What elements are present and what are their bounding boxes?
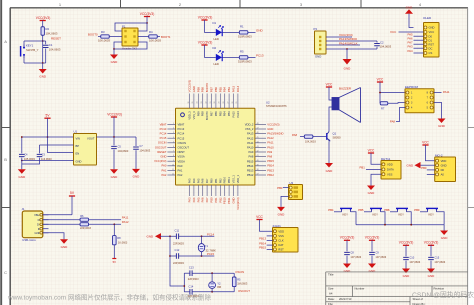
pin GND MQ-2 bbox=[436, 164, 439, 167]
wire emitter to ground bbox=[328, 141, 330, 163]
pin D0 MQ-2 bbox=[436, 168, 439, 171]
svg-text:47: 47 bbox=[257, 128, 259, 130]
svg-text:GND: GND bbox=[441, 236, 449, 240]
svg-text:PB4: PB4 bbox=[223, 111, 227, 116]
svg-text:CS: CS bbox=[429, 51, 433, 55]
LED D1 bbox=[216, 29, 222, 36]
svg-text:5V: 5V bbox=[113, 260, 116, 264]
resistor R5b bbox=[239, 56, 248, 59]
wire pin leads P3 bbox=[326, 36, 330, 38]
capacitor C5 bbox=[113, 137, 115, 145]
svg-text:VDD: VDD bbox=[278, 229, 284, 233]
wire OSCOUT row bbox=[192, 291, 234, 293]
svg-text:NRST: NRST bbox=[178, 150, 186, 154]
svg-text:VCC: VCC bbox=[390, 30, 397, 34]
svg-text:11: 11 bbox=[172, 169, 174, 171]
svg-text:VDD_2: VDD_2 bbox=[245, 123, 254, 127]
resistor R7 pullup bbox=[379, 93, 381, 104]
ground GND C5 bbox=[110, 169, 118, 174]
svg-text:R6: R6 bbox=[80, 214, 84, 218]
svg-text:VCC(3V3): VCC(3V3) bbox=[399, 241, 414, 245]
pin 30 PB6 MCU bbox=[215, 94, 217, 109]
svg-text:105,0603: 105,0603 bbox=[24, 157, 35, 161]
svg-text:PA7: PA7 bbox=[205, 178, 209, 183]
svg-text:EN: EN bbox=[76, 152, 80, 156]
svg-text:PA9: PA9 bbox=[249, 150, 254, 154]
svg-text:A: A bbox=[4, 39, 7, 44]
svg-text:PA4: PA4 bbox=[192, 178, 196, 183]
pin DAT 24L01 bbox=[273, 244, 276, 247]
svg-text:PA6: PA6 bbox=[201, 178, 205, 183]
svg-text:1: 1 bbox=[173, 123, 174, 125]
svg-text:VCC(3V3): VCC(3V3) bbox=[107, 112, 122, 116]
svg-text:Date:: Date: bbox=[328, 297, 335, 301]
svg-text:GND: GND bbox=[438, 124, 446, 128]
node PA11 bbox=[89, 219, 121, 221]
svg-text:10K,0603: 10K,0603 bbox=[46, 32, 58, 36]
pin VDD 24L01 bbox=[273, 230, 276, 233]
ground GND MQ2 (left arrow) bbox=[415, 162, 421, 168]
pin 9 VDDA MCU bbox=[167, 160, 175, 162]
svg-text:40: 40 bbox=[257, 160, 259, 162]
svg-text:PB12: PB12 bbox=[247, 173, 254, 177]
svg-text:PA12: PA12 bbox=[122, 220, 129, 224]
svg-text:LED: LED bbox=[214, 37, 219, 41]
svg-text:26: 26 bbox=[232, 102, 234, 104]
svg-text:107,0603: 107,0603 bbox=[375, 255, 386, 259]
svg-text:PA7: PA7 bbox=[205, 197, 209, 202]
svg-text:GND: GND bbox=[278, 213, 286, 217]
svg-text:VBAT: VBAT bbox=[160, 122, 167, 126]
svg-text:VSS: VSS bbox=[278, 234, 284, 238]
svg-text:GND: GND bbox=[368, 191, 376, 195]
svg-text:PC14: PC14 bbox=[207, 232, 214, 236]
svg-text:R5: R5 bbox=[237, 277, 241, 281]
svg-text:VCC(3V3): VCC(3V3) bbox=[365, 236, 380, 240]
resistor R5 bbox=[233, 273, 235, 276]
capacitor C13 bbox=[184, 272, 190, 274]
pin 35 VSS_3 MCU bbox=[193, 94, 195, 109]
svg-text:10K,0603: 10K,0603 bbox=[149, 39, 161, 43]
svg-text:PA11: PA11 bbox=[267, 141, 274, 145]
node PB1 DHT11 bbox=[366, 168, 381, 170]
svg-text:GND: GND bbox=[428, 274, 436, 278]
svg-text:D1: D1 bbox=[213, 21, 217, 25]
svg-text:PA11: PA11 bbox=[247, 141, 254, 145]
svg-text:RST: RST bbox=[429, 42, 435, 46]
svg-text:GND: GND bbox=[315, 55, 321, 59]
node PA12 bbox=[89, 223, 121, 225]
svg-text:PB11: PB11 bbox=[227, 197, 231, 204]
pin 2 EEPROM bbox=[406, 96, 409, 99]
svg-text:107,0603: 107,0603 bbox=[409, 260, 420, 264]
svg-text:PA6: PA6 bbox=[201, 197, 205, 202]
pin 3 EEPROM bbox=[406, 101, 409, 104]
wire right pin2 to VCC bbox=[138, 23, 147, 31]
svg-text:104,0603: 104,0603 bbox=[139, 149, 150, 153]
svg-text:VCC(3V3): VCC(3V3) bbox=[36, 16, 51, 20]
resistor R1 bbox=[239, 31, 248, 34]
pin 13 PA3 MCU bbox=[189, 185, 191, 196]
pin 8 EEPROM bbox=[430, 91, 433, 94]
svg-text:10: 10 bbox=[172, 164, 174, 166]
wire RESET row bbox=[24, 40, 46, 42]
svg-text:KEY: KEY bbox=[373, 212, 379, 216]
pushbutton KEY2 bbox=[342, 209, 351, 212]
svg-text:510R,0603: 510R,0603 bbox=[238, 34, 252, 38]
svg-text:R4: R4 bbox=[149, 30, 153, 34]
node PC13 bbox=[248, 56, 256, 58]
wire VOUT rail bbox=[97, 136, 137, 138]
svg-text:PC14: PC14 bbox=[178, 132, 185, 136]
pin 19 PB1 MCU bbox=[215, 185, 217, 196]
node PB3 U3 bbox=[283, 187, 289, 189]
svg-text:GND: GND bbox=[133, 174, 141, 178]
svg-text:VCC(3V3): VCC(3V3) bbox=[198, 41, 213, 45]
svg-text:RESET: RESET bbox=[51, 37, 61, 41]
wire D2 to R5 bbox=[222, 56, 239, 58]
wire bottom pins to ground bbox=[114, 42, 122, 49]
pin 27 PB3 MCU bbox=[228, 94, 230, 109]
svg-text:C8: C8 bbox=[350, 250, 354, 254]
capacitor C12 bbox=[170, 255, 176, 257]
svg-text:D2: D2 bbox=[213, 46, 217, 50]
svg-text:GND: GND bbox=[344, 269, 352, 273]
gnd rail crystals bbox=[170, 236, 184, 286]
svg-text:PA2: PA2 bbox=[178, 173, 183, 177]
wire D- row bbox=[43, 219, 80, 221]
svg-text:38: 38 bbox=[257, 169, 259, 171]
pin VSS DHT11 bbox=[382, 173, 385, 176]
wire OLED pin leads bbox=[414, 31, 424, 33]
node PB15 bbox=[267, 248, 273, 250]
pin 37 PB12 MCU bbox=[255, 174, 266, 176]
pin 6 OSCOUT MCU bbox=[167, 146, 175, 148]
svg-text:GND: GND bbox=[256, 29, 264, 33]
svg-text:BOOT0: BOOT0 bbox=[88, 33, 98, 37]
svg-text:5: 5 bbox=[173, 141, 174, 143]
pin 14 PA4 MCU bbox=[193, 185, 195, 196]
svg-text:C12: C12 bbox=[175, 248, 180, 252]
svg-text:PB0: PB0 bbox=[210, 178, 214, 183]
pin 1 EEPROM bbox=[406, 91, 409, 94]
wire VCC stem bbox=[146, 17, 148, 24]
svg-text:C4: C4 bbox=[24, 152, 28, 156]
svg-text:VCC: VCC bbox=[256, 215, 263, 219]
node SWCLK wire bbox=[330, 44, 360, 46]
svg-text:6: 6 bbox=[173, 146, 174, 148]
svg-text:GND: GND bbox=[232, 197, 236, 203]
pin 46 PA13 MCU bbox=[255, 133, 266, 135]
pin 26 PA15 MCU bbox=[233, 94, 235, 109]
svg-text:VCC: VCC bbox=[326, 83, 333, 87]
svg-text:1M,0603: 1M,0603 bbox=[237, 281, 248, 285]
pin 36 VDD_3 MCU bbox=[189, 94, 191, 109]
svg-text:VCC(3V3): VCC(3V3) bbox=[188, 80, 192, 92]
wire VCC to R2 bbox=[42, 21, 44, 28]
wire BP lead bbox=[40, 144, 74, 146]
wire VIN rail bbox=[22, 136, 74, 138]
svg-text:PB5: PB5 bbox=[218, 111, 222, 116]
wire 24L01 vss bbox=[267, 235, 273, 237]
pin 44 PA11 MCU bbox=[255, 142, 266, 144]
wire D+ row bbox=[43, 223, 80, 225]
svg-text:39: 39 bbox=[257, 164, 259, 166]
pin 45 PA12 MCU bbox=[255, 137, 266, 139]
pin 43 PA10 MCU bbox=[255, 146, 266, 148]
ground GND USB bbox=[60, 239, 68, 244]
svg-text:PB0: PB0 bbox=[210, 197, 214, 203]
crystal Y1 bbox=[201, 236, 203, 243]
svg-text:42: 42 bbox=[257, 151, 259, 153]
svg-text:PA3: PA3 bbox=[188, 178, 192, 183]
svg-text:PA14: PA14 bbox=[236, 85, 240, 92]
ground GND regulator input bbox=[18, 169, 26, 174]
svg-text:C9: C9 bbox=[375, 250, 379, 254]
svg-text:C: C bbox=[4, 270, 7, 275]
svg-text:BOOT0: BOOT0 bbox=[205, 83, 209, 93]
svg-text:PB1: PB1 bbox=[214, 178, 218, 183]
svg-text:PB7: PB7 bbox=[210, 111, 214, 116]
pin RST OLED bbox=[424, 43, 427, 46]
capacitor C9 bbox=[369, 252, 375, 254]
svg-text:Title: Title bbox=[328, 273, 334, 277]
svg-text:PC15: PC15 bbox=[160, 136, 167, 140]
pin 41 PA8 MCU bbox=[255, 156, 266, 158]
svg-text:PB11: PB11 bbox=[227, 177, 231, 184]
ground GND C9 bbox=[368, 264, 376, 269]
pin VSS 24L01 bbox=[273, 234, 276, 237]
svg-text:GND: GND bbox=[407, 163, 415, 167]
svg-text:KEY: KEY bbox=[399, 212, 405, 216]
svg-text:PA10: PA10 bbox=[247, 146, 254, 150]
svg-text:U2: U2 bbox=[266, 101, 270, 105]
wire VBUS bbox=[43, 214, 72, 216]
ground GND C8 bbox=[343, 264, 351, 269]
svg-text:GND: GND bbox=[369, 269, 377, 273]
ground GND U3 bbox=[277, 207, 285, 212]
pin 15 PA5 MCU bbox=[197, 185, 199, 196]
svg-text:VBAT: VBAT bbox=[178, 123, 185, 127]
svg-text:VOUT: VOUT bbox=[87, 137, 95, 141]
svg-text:VCC(3V3): VCC(3V3) bbox=[154, 159, 166, 163]
svg-text:GND: GND bbox=[111, 60, 119, 64]
ground GND boot header bbox=[110, 55, 118, 60]
svg-text:PA11: PA11 bbox=[443, 90, 450, 94]
svg-text:R2: R2 bbox=[46, 27, 50, 31]
svg-text:PA9: PA9 bbox=[267, 150, 272, 154]
svg-text:VIN: VIN bbox=[76, 137, 81, 141]
svg-text:S8050: S8050 bbox=[333, 136, 342, 140]
pin D0 OLED bbox=[424, 35, 427, 38]
svg-text:PA15: PA15 bbox=[232, 111, 236, 118]
wire GND pin lead bbox=[22, 160, 74, 162]
svg-text:Y1: Y1 bbox=[205, 244, 209, 248]
svg-text:LED: LED bbox=[214, 62, 219, 66]
pushbutton KEY1 bbox=[23, 41, 25, 45]
pin 42 PA9 MCU bbox=[255, 151, 266, 153]
svg-text:C11: C11 bbox=[175, 228, 180, 232]
svg-text:PA8: PA8 bbox=[267, 155, 272, 159]
pin CS OLED bbox=[424, 52, 427, 55]
wire to LED D2 bbox=[205, 45, 216, 57]
pin 34 PB9 MCU bbox=[197, 94, 199, 109]
svg-text:USB-micro: USB-micro bbox=[22, 238, 36, 242]
svg-text:PA14/SWCLK: PA14/SWCLK bbox=[339, 41, 358, 45]
svg-text:1K,0603: 1K,0603 bbox=[118, 242, 128, 245]
svg-text:KEY: KEY bbox=[429, 212, 435, 216]
svg-text:Revision: Revision bbox=[434, 287, 445, 291]
svg-text:37: 37 bbox=[257, 174, 259, 176]
svg-text:PB5: PB5 bbox=[358, 208, 364, 212]
svg-text:KEY1: KEY1 bbox=[26, 43, 34, 47]
wire 5V stem and EN tie bbox=[48, 118, 74, 152]
svg-text:PA1: PA1 bbox=[162, 168, 167, 172]
svg-text:GND: GND bbox=[18, 175, 26, 179]
capacitor C11 bbox=[176, 234, 178, 240]
svg-text:PA5: PA5 bbox=[196, 178, 200, 183]
svg-text:D1: D1 bbox=[429, 38, 433, 42]
svg-text:C14: C14 bbox=[189, 284, 194, 288]
svg-text:RST: RST bbox=[278, 248, 284, 252]
svg-text:33: 33 bbox=[201, 102, 203, 104]
ground GND C10 bbox=[402, 269, 410, 274]
svg-text:PC15: PC15 bbox=[178, 136, 185, 140]
node GND net label bbox=[248, 31, 256, 33]
pin 38 PB13 MCU bbox=[255, 169, 266, 171]
capacitor C10 bbox=[403, 257, 409, 259]
svg-text:7: 7 bbox=[173, 151, 174, 153]
svg-text:104,0603: 104,0603 bbox=[380, 45, 392, 49]
svg-text:PA10: PA10 bbox=[267, 145, 274, 149]
ground GND DHT11 bbox=[367, 186, 375, 191]
svg-text:OSCIN: OSCIN bbox=[235, 270, 244, 274]
svg-text:PB5: PB5 bbox=[218, 87, 222, 93]
svg-text:PB14: PB14 bbox=[247, 164, 254, 168]
svg-text:VCC(3V3): VCC(3V3) bbox=[267, 122, 279, 126]
svg-text:BUZZER: BUZZER bbox=[339, 87, 352, 91]
svg-text:22R,0603: 22R,0603 bbox=[80, 227, 91, 230]
pin RST 24L01 bbox=[273, 248, 276, 251]
svg-text:9: 9 bbox=[173, 160, 174, 162]
svg-text:PA4: PA4 bbox=[192, 197, 196, 202]
svg-text:PA0: PA0 bbox=[162, 164, 167, 168]
svg-text:VSS: VSS bbox=[387, 172, 393, 176]
pin 24 VDD_1 MCU bbox=[237, 185, 239, 196]
wire right pin3 lead bbox=[138, 36, 142, 38]
svg-text:PC13: PC13 bbox=[160, 127, 167, 131]
svg-text:PB10: PB10 bbox=[223, 197, 227, 204]
capacitor C3 bbox=[39, 145, 41, 153]
svg-text:R3: R3 bbox=[101, 30, 105, 34]
pin VCC OLED bbox=[424, 31, 427, 34]
capacitor C15 bbox=[428, 257, 434, 259]
svg-text:PC14: PC14 bbox=[160, 132, 167, 136]
svg-text:32.768K: 32.768K bbox=[206, 248, 217, 252]
svg-text:C5: C5 bbox=[118, 144, 122, 148]
pin 8 VSSA MCU bbox=[167, 156, 175, 158]
svg-text:VSS_1: VSS_1 bbox=[232, 175, 236, 184]
svg-text:PA0: PA0 bbox=[178, 164, 183, 168]
node VCC OLED bbox=[399, 31, 414, 33]
svg-text:PA11: PA11 bbox=[122, 216, 129, 220]
svg-text:C1: C1 bbox=[49, 43, 53, 47]
svg-text:PA8: PA8 bbox=[249, 155, 254, 159]
svg-text:GND: GND bbox=[326, 169, 334, 173]
svg-text:10K,0603: 10K,0603 bbox=[98, 39, 110, 43]
pin 18 PB0 MCU bbox=[211, 185, 213, 196]
svg-text:PA8: PA8 bbox=[292, 133, 298, 137]
svg-text:PA13/SWDIO: PA13/SWDIO bbox=[267, 132, 283, 136]
svg-text:A0: A0 bbox=[441, 173, 445, 177]
svg-text:PB14: PB14 bbox=[267, 164, 274, 168]
svg-text:PA14: PA14 bbox=[236, 111, 240, 118]
svg-text:107,0603: 107,0603 bbox=[350, 255, 361, 259]
svg-text:PB8: PB8 bbox=[201, 111, 205, 116]
svg-text:PB4: PB4 bbox=[223, 87, 227, 93]
crystal Y2 bbox=[211, 273, 213, 282]
svg-text:GND: GND bbox=[403, 274, 411, 278]
ground GND keys bbox=[443, 225, 445, 231]
wire USB gnd bbox=[43, 233, 64, 240]
svg-text:DATA: DATA bbox=[387, 168, 394, 172]
wire EEPROM gnd bbox=[434, 103, 442, 119]
svg-text:SW-PB_Y: SW-PB_Y bbox=[26, 48, 39, 52]
svg-text:BP: BP bbox=[76, 144, 80, 148]
svg-text:VCC: VCC bbox=[368, 149, 375, 153]
svg-text:BOOT0: BOOT0 bbox=[205, 111, 209, 120]
svg-text:27: 27 bbox=[227, 102, 229, 104]
svg-text:PA2: PA2 bbox=[162, 173, 167, 177]
pin 7 NRST MCU bbox=[167, 151, 175, 153]
capacitor C14 bbox=[184, 291, 190, 293]
pin 4 PC15 MCU bbox=[167, 137, 175, 139]
transistor Q1 bbox=[326, 133, 328, 140]
svg-text:PC13: PC13 bbox=[178, 127, 185, 131]
svg-text:CLK: CLK bbox=[278, 239, 283, 243]
pin 31 PB7 MCU bbox=[211, 94, 213, 109]
pin 11 PA1 MCU bbox=[167, 169, 175, 171]
svg-text:OSCIN: OSCIN bbox=[178, 141, 187, 145]
svg-text:VDD_1: VDD_1 bbox=[236, 174, 240, 183]
svg-text:VSS_2: VSS_2 bbox=[245, 127, 254, 131]
svg-text:PA13: PA13 bbox=[247, 132, 254, 136]
ground GND reset bbox=[42, 63, 44, 69]
resistor R4 bbox=[149, 35, 158, 38]
svg-text:C3: C3 bbox=[42, 152, 46, 156]
wire OSCIN row bbox=[192, 272, 234, 274]
svg-text:RESET: RESET bbox=[157, 150, 166, 154]
ground GND buzzer bbox=[325, 163, 333, 168]
svg-text:107,0603: 107,0603 bbox=[434, 260, 445, 264]
LED D2 bbox=[216, 54, 222, 61]
svg-text:PB3: PB3 bbox=[277, 186, 283, 190]
wire bottom of reset circuit bbox=[24, 62, 46, 64]
pin 1 marker bbox=[181, 113, 185, 117]
svg-text:PA1: PA1 bbox=[178, 169, 183, 173]
svg-text:104,0603: 104,0603 bbox=[49, 48, 61, 52]
capacitor C2 bbox=[376, 41, 378, 43]
svg-text:C7: C7 bbox=[139, 144, 143, 148]
power port 5V pullup bbox=[113, 245, 115, 259]
svg-text:PA4: PA4 bbox=[408, 49, 414, 53]
svg-text:PB4: PB4 bbox=[328, 208, 334, 212]
svg-text:45: 45 bbox=[257, 137, 259, 139]
svg-text:OSCIN: OSCIN bbox=[158, 141, 167, 145]
svg-text:C13: C13 bbox=[189, 266, 194, 270]
svg-text:Size: Size bbox=[328, 287, 334, 291]
svg-text:VDD: VDD bbox=[387, 162, 393, 166]
